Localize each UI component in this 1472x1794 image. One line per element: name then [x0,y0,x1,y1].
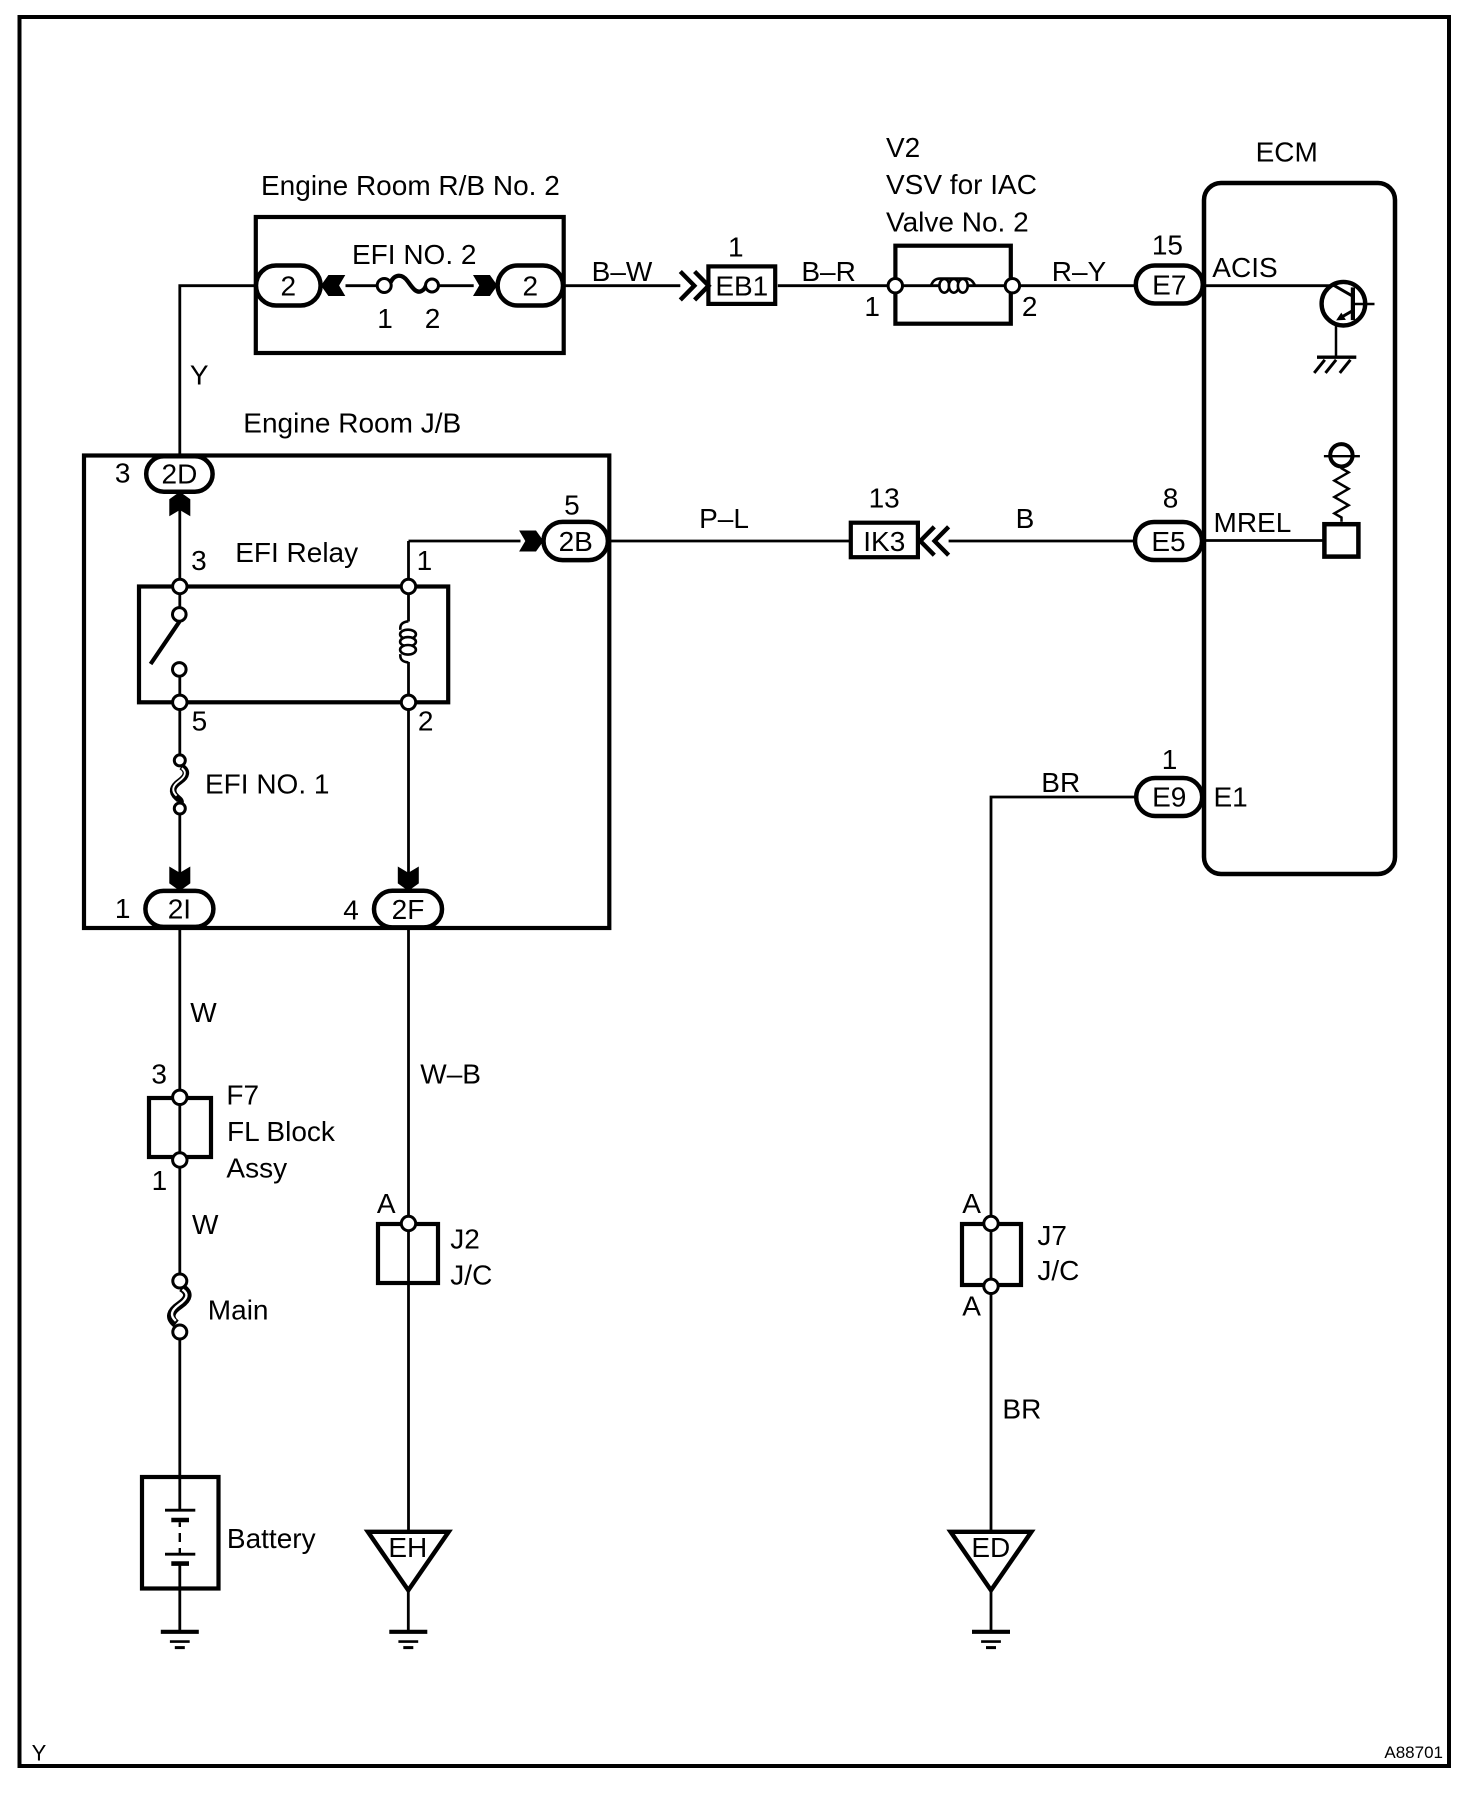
wire Y from R/B to 2D [180,286,256,457]
svg-text:R–Y: R–Y [1052,256,1107,287]
wire relay coil leads [407,587,410,622]
svg-text:W: W [192,1209,219,1240]
wire EFI NO.1 to 2I [178,814,181,891]
wire W from F7 to Main [180,1097,219,1275]
VSV V2 box [895,246,1010,324]
svg-text:A: A [377,1188,396,1219]
connector 2B [544,522,608,560]
svg-text:E9: E9 [1152,782,1186,813]
arrow into 2I [169,867,190,891]
svg-text:B–R: B–R [801,256,855,287]
wire MREL inside ECM [1206,507,1324,541]
svg-text:15: 15 [1152,229,1183,260]
relay pin nodes [173,579,187,593]
ground (ED) [972,1632,1010,1648]
svg-text:2B: 2B [559,526,593,557]
svg-text:3: 3 [151,1058,167,1089]
svg-text:J7: J7 [1037,1220,1067,1251]
wire P-L [608,503,851,541]
svg-text:8: 8 [1163,483,1179,514]
svg-text:BR: BR [1002,1394,1041,1425]
ground triangle ED [951,1532,1032,1591]
svg-text:VSV for IAC: VSV for IAC [886,169,1037,200]
fuse EFI NO. 2 [352,239,476,334]
wire relay pin 1 to 2B [407,541,410,587]
wire 2D to relay pin 3 [178,492,181,613]
svg-text:3: 3 [115,458,131,489]
chevron connector at IK3 [920,527,948,555]
wire relay pin 5 to EFI NO.1 [178,702,181,755]
svg-text:A88701: A88701 [1384,1743,1443,1762]
relay box EFI Relay [139,537,448,702]
fusible link EFI NO. 1 [173,755,329,814]
connector 2F [374,891,442,928]
svg-text:FL Block: FL Block [227,1116,336,1147]
svg-text:B–W: B–W [592,256,653,287]
svg-text:W–B: W–B [420,1059,481,1090]
svg-text:EFI Relay: EFI Relay [235,537,358,568]
connector E7 pin 15 [1136,266,1203,304]
transistor driver in ECM (ACIS) [1322,282,1375,356]
svg-text:2I: 2I [168,894,191,925]
battery box [142,1477,316,1589]
svg-text:Engine Room J/B: Engine Room J/B [243,407,461,438]
svg-text:J/C: J/C [1037,1255,1079,1286]
svg-text:A: A [962,1188,981,1219]
wire BR from E9 to J7 [991,767,1136,1224]
arrow into 2B [519,531,543,552]
svg-text:P–L: P–L [699,503,749,534]
svg-text:EFI NO. 2: EFI NO. 2 [352,239,476,270]
svg-text:MREL: MREL [1214,507,1292,538]
svg-text:EFI NO. 1: EFI NO. 1 [205,769,329,800]
wire B-R [778,256,889,287]
connector IK3 pin 13 [851,483,918,558]
fusible link Main [171,1274,268,1339]
connector EB1 pin 1 [708,231,775,304]
wire J2 to EH [407,1224,410,1531]
wire ACIS inside ECM [1206,252,1330,286]
wire B [949,503,1135,541]
svg-text:EB1: EB1 [715,270,768,301]
arrow into left connector 2 [321,275,345,296]
J7 nodes [984,1216,998,1230]
svg-text:Battery: Battery [227,1523,316,1554]
arrow into right connector 2 [473,275,497,296]
fusible link block F7 FL Block Assy [149,1080,336,1184]
svg-text:2F: 2F [392,894,425,925]
svg-text:A: A [962,1290,981,1321]
junction block J2 J/C [378,1224,492,1291]
svg-text:13: 13 [869,483,900,514]
wire through VSV [895,284,1012,287]
svg-text:ECM: ECM [1256,136,1318,167]
ground triangle EH [368,1532,449,1591]
svg-text:2: 2 [1022,291,1038,322]
svg-text:E7: E7 [1152,269,1186,300]
svg-text:J2: J2 [450,1224,480,1255]
wire fuse right [439,284,474,287]
svg-text:V2: V2 [886,132,920,163]
label V2 VSV for IAC Valve No. 2 [886,132,1037,237]
svg-text:1: 1 [417,545,433,576]
svg-text:IK3: IK3 [863,526,905,557]
wire EH tip to ground [407,1590,410,1632]
relay contacts and switch [151,545,208,736]
battery cells [165,1510,195,1563]
arrow into 2D [169,492,190,516]
svg-text:5: 5 [564,490,580,521]
svg-text:Y: Y [32,1740,47,1765]
wire W from 2I to F7 [180,927,218,1097]
wire fuse left [346,284,378,287]
svg-text:1: 1 [115,893,131,924]
connector 2D [146,456,212,491]
svg-text:ED: ED [971,1532,1010,1563]
wire R-Y [1019,256,1135,287]
svg-text:4: 4 [343,895,359,926]
ECM block [1204,136,1395,874]
svg-text:BR: BR [1041,767,1080,798]
VSV coil and nodes [864,279,1037,323]
svg-text:1: 1 [152,1165,168,1196]
block Engine Room J/B [84,407,609,928]
chevron connector at EB1 [680,272,708,300]
connector 2I [145,891,213,927]
svg-text:2: 2 [418,705,434,736]
wire W-B from 2F to J2 [409,927,481,1224]
svg-text:2: 2 [523,270,539,301]
wire Main to battery [178,1339,181,1509]
svg-text:E5: E5 [1151,526,1185,557]
junction block J7 J/C [962,1220,1079,1286]
resistor and power symbol in ECM (MREL) [1324,444,1360,522]
wire ED tip to ground [990,1590,993,1632]
wire relay pin 2 to 2F [407,702,410,891]
svg-text:B: B [1016,503,1035,534]
svg-text:E1: E1 [1214,781,1248,812]
svg-text:Main: Main [208,1295,269,1326]
connector E5 pin 8 [1135,522,1202,560]
arrow into 2F [398,867,419,891]
svg-text:Engine Room R/B No. 2: Engine Room R/B No. 2 [261,170,560,201]
svg-text:1: 1 [728,231,744,262]
svg-text:2D: 2D [162,459,198,490]
svg-text:2: 2 [281,270,297,301]
svg-text:Y: Y [190,360,209,391]
ground (EH) [389,1632,427,1648]
wire battery to ground [178,1564,181,1632]
wire BR from J7 to ED [991,1224,1041,1531]
block Engine Room R/B No. 2 [256,170,564,353]
F7 nodes [173,1090,187,1104]
svg-text:EH: EH [388,1532,427,1563]
MREL driver input square in ECM [1324,524,1358,556]
ground (hatched, in ECM) [1314,357,1356,373]
svg-text:J/C: J/C [450,1260,492,1291]
connector 2 (left, Engine Room R/B No.2) [256,266,321,306]
J2 node [401,1216,415,1230]
svg-text:1: 1 [377,303,393,334]
wire switch to relay pin 5 [178,670,181,702]
svg-text:2: 2 [425,303,441,334]
svg-text:1: 1 [864,291,880,322]
svg-text:3: 3 [191,545,207,576]
ground (battery) [161,1632,199,1648]
svg-text:1: 1 [1162,744,1178,775]
wire B-W [564,256,681,287]
relay coil [400,545,433,736]
svg-text:F7: F7 [226,1080,259,1111]
svg-text:ACIS: ACIS [1212,252,1277,283]
svg-text:5: 5 [192,705,208,736]
connector E9 pin 1 [1136,778,1202,816]
svg-text:Assy: Assy [226,1152,287,1183]
connector 2 (right, Engine Room R/B No.2) [498,266,563,306]
svg-text:Valve No. 2: Valve No. 2 [886,206,1029,237]
svg-text:W: W [190,997,217,1028]
